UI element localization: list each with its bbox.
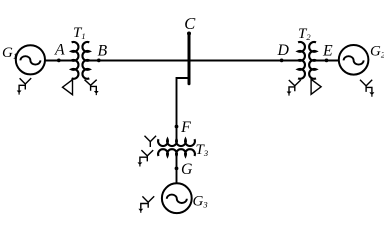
svg-text:T1: T1 (73, 25, 86, 41)
node G (175, 167, 179, 171)
node A (57, 59, 61, 63)
wire T2 to G2 (316, 60, 339, 62)
svg-text:G: G (181, 161, 193, 178)
ground of G3 (wye grounded) (141, 196, 154, 209)
tap wire from bus to lower branch (177, 78, 190, 139)
delta winding symbol of T1 (63, 80, 73, 95)
delta winding symbol of T2 (311, 79, 321, 94)
transformer T2 (298, 42, 316, 79)
wire bus C to T2 (189, 60, 298, 62)
svg-text:F: F (180, 119, 191, 136)
wire T1 to bus C (89, 60, 189, 62)
wye grounded symbol of T3 lower winding (140, 150, 153, 162)
ground of G1 (wye grounded) (19, 78, 31, 90)
transformer T3 (158, 139, 195, 156)
svg-text:C: C (184, 14, 196, 33)
generator G1 (16, 45, 45, 74)
svg-text:G1: G1 (2, 45, 17, 61)
svg-text:A: A (54, 42, 65, 59)
node F (175, 125, 179, 129)
wire T3 to G3 (176, 156, 178, 183)
svg-text:T3: T3 (196, 142, 209, 158)
wye symbol of T3 upper winding (145, 136, 157, 147)
wye grounded symbol of T1 (85, 80, 97, 91)
svg-text:G2: G2 (370, 44, 384, 60)
node E (325, 59, 329, 63)
wye grounded symbol of T2 (289, 80, 301, 92)
node D (280, 59, 284, 63)
node B (97, 59, 101, 63)
svg-text:D: D (277, 42, 290, 59)
generator G2 (339, 45, 369, 75)
wire G1 to T1 (45, 60, 72, 62)
svg-text:T2: T2 (298, 26, 311, 42)
generator G3 (162, 183, 192, 213)
svg-text:E: E (322, 42, 333, 59)
ground of G2 (wye grounded) (360, 80, 372, 92)
transformer T1 (72, 42, 90, 79)
svg-text:B: B (98, 42, 108, 59)
busbar C (188, 34, 191, 84)
svg-text:G3: G3 (193, 194, 208, 210)
